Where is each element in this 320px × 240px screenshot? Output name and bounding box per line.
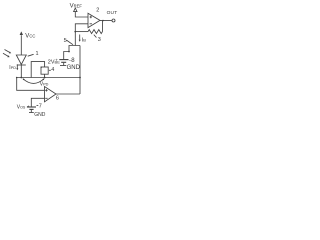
svg-text:8: 8 — [71, 58, 75, 64]
svg-text:6: 6 — [56, 95, 59, 101]
svg-text:VREF: VREF — [70, 3, 83, 9]
svg-text:3: 3 — [98, 37, 101, 43]
svg-text:OUT: OUT — [107, 10, 118, 16]
svg-text:1: 1 — [36, 51, 39, 57]
svg-text:IB: IB — [82, 37, 87, 43]
svg-text:VOS: VOS — [17, 105, 26, 111]
svg-text:+: + — [27, 104, 30, 109]
svg-text:4: 4 — [51, 67, 54, 73]
svg-text:GND: GND — [67, 65, 81, 71]
svg-text:5: 5 — [64, 38, 67, 44]
svg-text:GND: GND — [34, 112, 46, 118]
svg-text:IPD: IPD — [9, 65, 16, 71]
svg-text:2: 2 — [96, 8, 99, 14]
svg-text:2VBE: 2VBE — [48, 59, 60, 65]
svg-text:7: 7 — [39, 103, 42, 109]
svg-text:VCC: VCC — [25, 33, 35, 39]
svg-text:+: + — [55, 57, 58, 62]
